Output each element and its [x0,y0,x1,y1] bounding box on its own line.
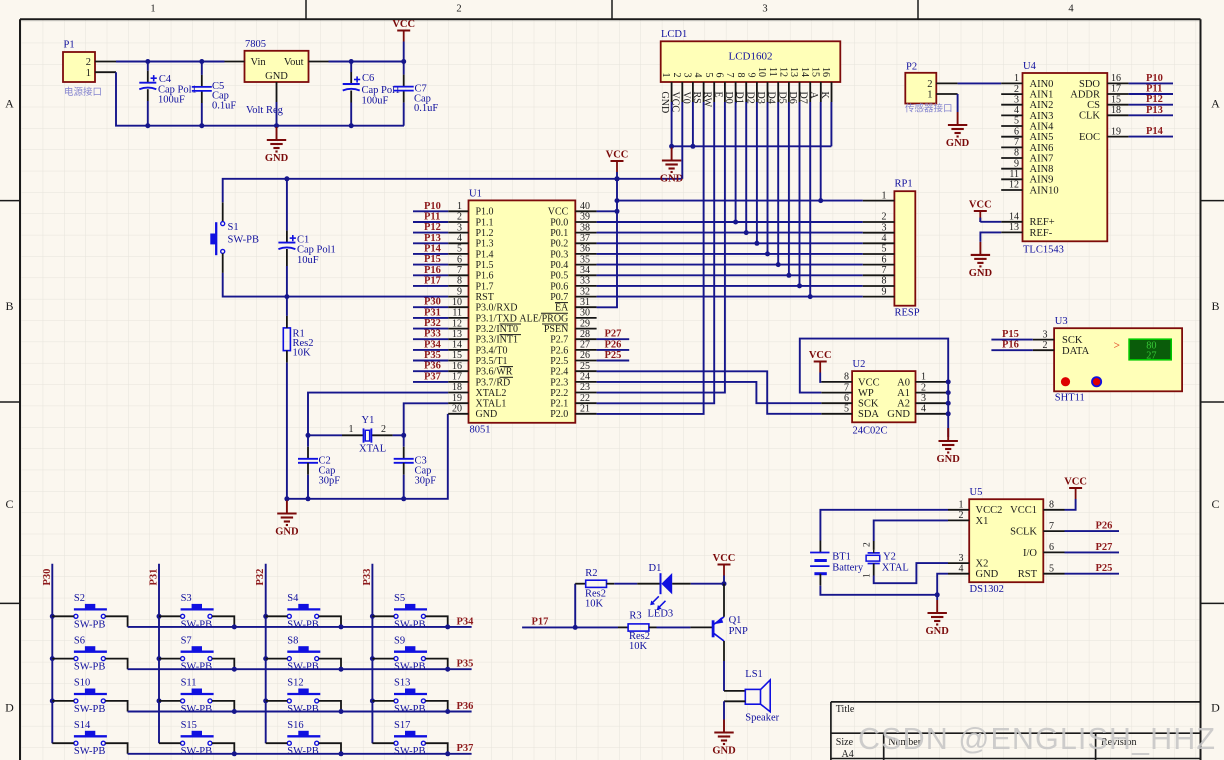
svg-text:13: 13 [1009,222,1019,233]
svg-text:2: 2 [457,212,462,223]
connector P2 [905,62,958,115]
svg-text:6: 6 [844,393,849,404]
svg-text:GND: GND [976,569,999,580]
wire P2.3 to U2 SCK [597,382,822,403]
svg-text:2: 2 [456,4,461,15]
svg-text:P2.3: P2.3 [550,377,568,388]
wire S1 to RST rail [223,253,449,299]
svg-text:Vout: Vout [284,57,304,68]
svg-text:P14: P14 [424,243,442,254]
ground at U2 [937,428,961,465]
svg-text:S1: S1 [228,222,239,233]
svg-text:10uF: 10uF [297,255,319,266]
svg-text:Vin: Vin [251,57,267,68]
wire VCC vertical EA [597,172,620,307]
net label P17 [522,616,578,630]
svg-text:P27: P27 [605,329,622,340]
svg-text:Size: Size [836,737,854,748]
wire crystal Y1 row [308,434,404,436]
wire R3 to Q1 base [649,626,713,628]
net label P26 at U5 [1065,521,1120,532]
wire LED to VCC [672,581,726,586]
net label P16 [991,340,1032,351]
title block [831,702,1201,760]
wire P0.1 row [597,230,863,235]
svg-text:10: 10 [452,297,462,308]
wire P17 to R2 [575,584,586,628]
LED D1 [648,563,674,620]
svg-text:RP1: RP1 [895,179,913,190]
svg-text:LS1: LS1 [745,669,763,680]
wire P2 pin2 to U4 AIN0 [958,82,1002,84]
svg-text:U1: U1 [469,189,482,200]
svg-text:33: 33 [580,276,590,287]
wire P1 pin2 to 7805 Vin [116,59,225,64]
svg-text:P30: P30 [42,569,53,586]
svg-text:2: 2 [921,382,926,393]
svg-text:4: 4 [882,233,887,244]
svg-text:4: 4 [1014,105,1019,116]
label C1 values [297,235,336,267]
svg-text:1: 1 [660,73,671,78]
label C2 values [319,456,341,487]
svg-text:TLC1543: TLC1543 [1023,245,1064,256]
switch S6 SW-PB [52,635,127,672]
svg-text:P15: P15 [424,254,441,265]
svg-text:2: 2 [927,79,932,90]
svg-text:28: 28 [580,329,590,340]
wire LCD D3 drop [767,102,769,254]
svg-text:5: 5 [844,404,849,415]
svg-text:U3: U3 [1055,316,1068,327]
svg-text:LED3: LED3 [648,609,674,620]
svg-text:3: 3 [457,222,462,233]
wire VCC to U2 pin8 [820,373,821,382]
capacitor C6 [343,76,361,90]
switch S12 SW-PB [266,678,341,715]
svg-text:VCC: VCC [1064,477,1087,488]
svg-text:1: 1 [921,372,926,383]
svg-text:8051: 8051 [470,425,491,436]
svg-text:GND: GND [659,92,670,114]
net label P25 [597,350,630,361]
power VCC at Q1 [713,553,736,576]
switch S4 SW-PB [266,593,341,630]
svg-text:REF-: REF- [1030,228,1053,239]
wire battery to VCC2 [820,510,948,553]
wire GND rail crystal [284,414,447,501]
svg-text:AIN3: AIN3 [1030,111,1054,122]
crystal Y2 [863,542,909,578]
svg-text:11: 11 [767,67,778,77]
svg-text:P33: P33 [424,329,441,340]
svg-text:D4: D4 [766,92,777,104]
svg-text:VCC: VCC [858,377,880,388]
net label P37 [413,371,448,382]
net label P13 [413,233,448,244]
svg-text:14: 14 [452,340,462,351]
svg-text:P30: P30 [424,297,441,308]
svg-text:SHT11: SHT11 [1055,392,1085,403]
speaker LS1 [745,669,779,723]
svg-text:P2.7: P2.7 [550,335,568,346]
label C5 values [212,81,236,112]
svg-text:S10: S10 [74,678,90,689]
svg-text:P2.1: P2.1 [550,399,568,410]
svg-text:6: 6 [1014,126,1019,137]
svg-text:XTAL1: XTAL1 [476,399,507,410]
capacitor C4 [139,75,157,89]
svg-text:14: 14 [799,67,810,77]
svg-text:XTAL2: XTAL2 [476,388,507,399]
svg-text:PNP: PNP [729,626,748,637]
net label P12 at U4 [1129,94,1173,105]
svg-text:GND: GND [969,268,993,279]
svg-text:P34: P34 [424,339,442,350]
svg-text:P1.0: P1.0 [476,207,494,218]
svg-text:9: 9 [882,286,887,297]
svg-text:A: A [1211,97,1220,111]
svg-text:XTAL: XTAL [882,562,909,573]
svg-text:D6: D6 [787,92,798,104]
svg-text:2: 2 [1014,84,1019,95]
svg-text:P31: P31 [149,569,160,586]
svg-text:16: 16 [1111,73,1121,84]
svg-text:12: 12 [778,67,789,77]
svg-text:A: A [5,97,14,111]
svg-text:11: 11 [452,308,462,319]
svg-text:8: 8 [1049,500,1054,511]
switch S3 SW-PB [159,593,234,630]
svg-text:P25: P25 [605,350,622,361]
svg-text:11: 11 [1009,169,1019,180]
ground at 7805 [265,127,289,164]
svg-text:A1: A1 [897,388,910,399]
svg-text:40: 40 [580,201,590,212]
switch S8 SW-PB [266,635,341,672]
wire VCC rail to U1 [223,176,683,221]
svg-text:1: 1 [457,201,462,212]
svg-text:Volt Reg: Volt Reg [246,105,284,116]
svg-text:AIN10: AIN10 [1030,185,1059,196]
svg-text:VCC1: VCC1 [1010,505,1037,516]
svg-text:传感器接口: 传感器接口 [905,103,953,115]
svg-text:GND: GND [476,409,498,420]
svg-text:1: 1 [349,424,354,435]
wire 7805 Vout to VCC [329,59,407,64]
svg-text:B: B [5,299,13,313]
svg-text:P3.4/T0: P3.4/T0 [476,345,508,356]
ground at R1 [275,501,299,538]
net label P15 [413,254,448,265]
svg-text:GND: GND [265,71,288,82]
wire LCD RS to P2.0 [597,102,704,414]
svg-text:GND: GND [926,626,950,637]
wire LCD A backlight drop [820,102,822,201]
svg-text:U5: U5 [970,487,983,498]
svg-text:1: 1 [150,4,155,15]
svg-text:D5: D5 [776,92,787,104]
svg-text:D2: D2 [744,92,755,104]
svg-text:SW-PB: SW-PB [287,704,319,715]
svg-text:12: 12 [452,318,462,329]
svg-text:25: 25 [580,361,590,372]
transistor Q1 PNP [713,615,748,641]
switch S14 SW-PB [52,720,127,757]
wire Q1 collector to speaker [724,641,745,691]
svg-text:V0: V0 [680,92,691,104]
svg-text:S12: S12 [287,678,303,689]
svg-text:A: A [808,92,819,100]
svg-text:6: 6 [714,73,725,78]
net label P10 at U4 [1129,73,1173,84]
svg-text:4: 4 [457,233,462,244]
svg-text:P2.5: P2.5 [550,356,568,367]
svg-text:Y1: Y1 [362,415,375,426]
svg-text:D3: D3 [755,92,766,104]
wire row net P34 [128,616,475,629]
switch S15 SW-PB [159,720,234,757]
svg-text:P3.7/RD: P3.7/RD [476,377,511,388]
svg-text:SCLK: SCLK [1010,527,1037,538]
svg-text:P1.7: P1.7 [476,281,494,292]
svg-text:K: K [819,92,830,100]
net label P32 [413,318,448,329]
connector P1 [63,40,116,99]
svg-text:38: 38 [580,222,590,233]
svg-text:SW-PB: SW-PB [74,662,106,673]
svg-text:S14: S14 [74,720,91,731]
svg-text:P12: P12 [1146,94,1163,105]
switch S2 SW-PB [52,593,127,630]
svg-text:GND: GND [660,174,684,185]
wire P0.0 row [597,220,863,225]
wire C3 to gnd [403,463,405,499]
svg-text:P3.6/WR: P3.6/WR [476,367,513,378]
svg-text:P17: P17 [532,616,549,627]
svg-text:9: 9 [746,73,757,78]
svg-text:P14: P14 [1146,126,1164,137]
resistor R2 [585,568,607,609]
svg-text:AIN4: AIN4 [1030,121,1055,132]
net label P17 [413,275,448,286]
svg-text:S8: S8 [287,635,298,646]
svg-text:P2.4: P2.4 [550,367,568,378]
wire battery to gnd rail [820,574,939,598]
svg-text:2: 2 [959,510,964,521]
svg-text:30pF: 30pF [415,476,437,487]
svg-text:18: 18 [1111,105,1121,116]
svg-text:PSEN: PSEN [544,324,568,335]
svg-text:SDA: SDA [858,409,879,420]
wire R1 leads [286,297,288,499]
wire LCD D7 drop [809,102,811,297]
svg-text:Battery: Battery [832,562,864,573]
svg-text:5: 5 [703,73,714,78]
svg-text:SW-PB: SW-PB [74,704,106,715]
svg-text:A4: A4 [842,749,854,760]
regulator U 7805 [225,39,329,102]
svg-text:S17: S17 [394,720,410,731]
svg-text:2: 2 [882,212,887,223]
svg-text:17: 17 [452,372,462,383]
svg-text:SW-PB: SW-PB [394,619,426,630]
svg-text:P0.2: P0.2 [550,239,568,250]
svg-text:15: 15 [809,67,820,77]
svg-text:RESP: RESP [895,308,920,319]
svg-text:VCC: VCC [548,207,569,218]
svg-text:AIN8: AIN8 [1030,164,1054,175]
net label P16 [413,265,448,276]
svg-text:10K: 10K [293,348,312,359]
wire LCD VCC drop [681,102,683,179]
svg-text:30: 30 [580,308,590,319]
wire LCD RW to P2.1 [597,102,715,403]
svg-text:P34: P34 [457,616,475,627]
switch S9 SW-PB [372,635,447,672]
svg-text:>: > [1114,340,1121,352]
net label P33 [413,329,448,340]
capacitor C1 [278,235,296,249]
wire LCD D1 drop [745,102,747,233]
svg-text:P15: P15 [1002,329,1019,340]
wire LCD D6 drop [799,102,801,286]
svg-text:SW-PB: SW-PB [394,662,426,673]
svg-text:P31: P31 [424,307,441,318]
wire LCD D0 drop [735,102,737,222]
net label P10 [413,201,448,212]
svg-text:4: 4 [921,404,926,415]
svg-text:26: 26 [580,350,590,361]
power VCC main rail [392,19,415,42]
svg-text:1: 1 [959,500,964,511]
wire LCD ground rail [669,102,831,149]
svg-text:SW-PB: SW-PB [287,662,319,673]
capacitor C2 [298,459,318,463]
svg-text:19: 19 [452,393,462,404]
svg-text:电源接口: 电源接口 [64,86,102,98]
ground at LCD [660,148,684,185]
svg-text:7: 7 [1014,137,1019,148]
net label P11 at U4 [1129,84,1173,95]
svg-text:7: 7 [457,265,462,276]
svg-text:EOC: EOC [1079,132,1100,143]
svg-text:P2.2: P2.2 [550,388,568,399]
switch S5 SW-PB [372,593,447,630]
svg-text:AIN9: AIN9 [1030,175,1054,186]
svg-text:P11: P11 [1146,84,1162,95]
svg-text:7: 7 [1049,521,1054,532]
svg-text:5: 5 [1049,563,1054,574]
svg-text:S9: S9 [394,635,405,646]
svg-text:35: 35 [580,254,590,265]
svg-text:P1.5: P1.5 [476,260,494,271]
svg-text:8: 8 [1014,148,1019,159]
svg-text:P32: P32 [255,569,266,586]
svg-text:6: 6 [1049,542,1054,553]
svg-text:P1.2: P1.2 [476,228,494,239]
svg-text:P10: P10 [1146,73,1163,84]
svg-text:S11: S11 [181,678,197,689]
svg-text:2: 2 [863,542,873,547]
svg-text:32: 32 [580,286,590,297]
svg-text:X2: X2 [976,559,989,570]
switch S11 SW-PB [159,678,234,715]
switch S16 SW-PB [266,720,341,757]
svg-text:21: 21 [580,404,590,415]
svg-text:7: 7 [724,73,735,78]
label Volt Reg [246,105,284,116]
wire XTAL1 to C3 [401,403,448,459]
svg-text:RST: RST [476,292,494,303]
svg-text:19: 19 [1111,126,1121,137]
svg-text:1: 1 [1014,73,1019,84]
svg-text:3: 3 [682,73,693,78]
svg-text:3: 3 [921,393,926,404]
switch S1 [211,222,259,256]
svg-text:P37: P37 [457,743,474,754]
capacitor C4 leads [147,62,149,126]
svg-text:SW-PB: SW-PB [287,619,319,630]
svg-text:P1.4: P1.4 [476,249,494,260]
svg-text:0.1uF: 0.1uF [414,103,438,114]
svg-text:P16: P16 [1002,340,1019,351]
svg-text:GND: GND [265,153,289,164]
label C6 values [362,73,401,107]
svg-text:15: 15 [1111,94,1121,105]
wire P0.2 row [597,241,863,246]
svg-text:SCK: SCK [1062,335,1083,346]
wire XTAL2 to C2 [306,393,449,459]
svg-text:ALE/PROG: ALE/PROG [519,313,568,324]
svg-text:34: 34 [580,265,590,276]
svg-text:P3.0/RXD: P3.0/RXD [476,303,518,314]
svg-text:SW-PB: SW-PB [394,746,426,757]
svg-text:P3.2/INT0: P3.2/INT0 [476,324,519,335]
svg-text:SW-PB: SW-PB [181,619,213,630]
net label P11 [413,212,448,223]
svg-text:GND: GND [275,527,299,538]
svg-text:14: 14 [1009,212,1019,223]
wire U1 pin40 VCC [597,210,617,212]
svg-text:SDO: SDO [1079,79,1100,90]
svg-text:P26: P26 [605,339,622,350]
svg-text:S16: S16 [287,720,303,731]
wire 7805 GND down [276,102,278,126]
svg-text:10K: 10K [629,641,648,652]
svg-text:12: 12 [1009,180,1019,191]
svg-text:C: C [5,497,13,511]
svg-text:AIN1: AIN1 [1030,90,1054,101]
svg-text:LCD1602: LCD1602 [729,51,773,63]
svg-text:P35: P35 [424,350,441,361]
svg-text:SW-PB: SW-PB [181,704,213,715]
svg-text:CSDN @ENGLISH_HHZ: CSDN @ENGLISH_HHZ [858,722,1216,756]
svg-text:SW-PB: SW-PB [394,704,426,715]
op-amp U5 DS1302 RTC [948,487,1065,595]
svg-text:7: 7 [882,265,887,276]
power VCC at REF+ [969,200,992,223]
svg-text:39: 39 [580,212,590,223]
svg-text:2: 2 [1043,340,1048,351]
wire P0.3 row [597,251,863,256]
svg-text:24: 24 [580,372,590,383]
svg-text:1: 1 [927,90,932,101]
net label P26 [597,339,630,350]
svg-text:VCC: VCC [713,553,736,564]
svg-text:SW-PB: SW-PB [228,235,260,246]
svg-text:LCD1: LCD1 [661,29,687,40]
